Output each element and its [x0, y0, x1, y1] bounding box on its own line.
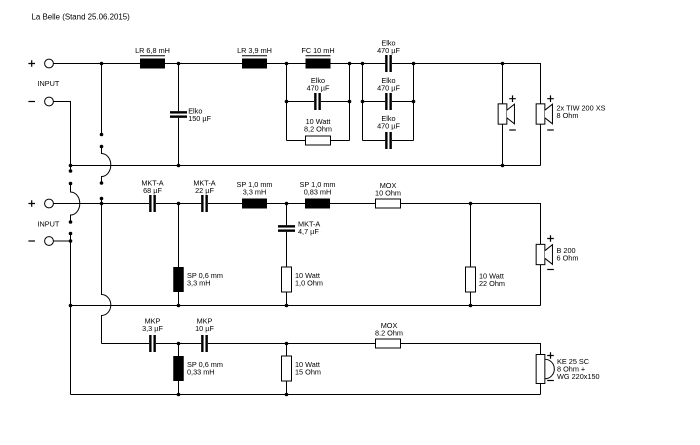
minus sign input - (mid/high) [28, 240, 35, 242]
inductor SP 1,0 mm 3,3 mH [242, 199, 267, 209]
capacitor Elko 470 uF (ladder bottom) [385, 132, 392, 149]
label FC 10 mH [301, 46, 334, 55]
label MKT-A 4,7 uF [298, 220, 320, 237]
plus sign tweeter + [547, 352, 554, 359]
wire bottom shunt coil branch [178, 344, 180, 395]
wire mid RC branch [286, 204, 288, 306]
wire mid positive rail [53, 204, 540, 306]
label 10 Watt 22 Ohm [479, 272, 505, 289]
label Elko 470 uF (notch) [307, 76, 330, 93]
svg-text:150 µF: 150 µF [188, 114, 211, 123]
wire bottom 15 Ohm branch [286, 344, 288, 395]
svg-text:68 µF: 68 µF [143, 186, 162, 195]
svg-text:FC 10 mH: FC 10 mH [301, 46, 334, 55]
wire bottom ground rail [71, 394, 541, 396]
junction negative feed break lower end [69, 232, 73, 236]
label KE 25 SC 8 Ohm + WG 220x150 [557, 357, 600, 381]
junction ladder middle right [412, 100, 416, 104]
minus sign woofer 1 - [509, 129, 516, 131]
minus sign input - (woofer) [28, 101, 35, 103]
junction top rail / ladder left [361, 62, 365, 66]
wire Elko 150 branch [178, 64, 180, 166]
svg-text:LR 3,9 mH: LR 3,9 mH [237, 46, 272, 55]
svg-text:10 Ohm: 10 Ohm [375, 189, 401, 198]
wire bottom positive rail [102, 344, 541, 395]
svg-text:WG 220x150: WG 220x150 [557, 372, 600, 381]
inductor SP 1,0 mm 0,83 mH [305, 199, 330, 209]
minus sign tweeter - [547, 380, 554, 382]
wire top positive rail [53, 64, 540, 166]
wire negative feed lower segment [70, 234, 72, 395]
svg-text:3,3 µF: 3,3 µF [142, 324, 163, 333]
svg-text:6 Ohm: 6 Ohm [557, 254, 579, 263]
label MOX 10 Ohm [375, 181, 401, 198]
junction positive feed hop start [100, 145, 104, 149]
junction ground rail / Elko 150 branch [177, 164, 181, 168]
inductor SP 0,6 mm 3,3 mH [173, 267, 184, 292]
capacitor MKP 3,3 uF [149, 335, 156, 352]
wire elko ladder bottom rail [363, 140, 414, 142]
junction positive feed break upper end [100, 133, 104, 137]
resistor 10 Watt 15 Ohm [282, 356, 292, 381]
junction top rail / notch block right [348, 62, 352, 66]
label MOX 8.2 Ohm [375, 321, 403, 338]
junction mid positive rail / shunt coil [177, 202, 181, 206]
label Elko 470 uF (ladder middle) [377, 76, 400, 93]
junction notch middle right [348, 100, 352, 104]
junction top rail / ladder right [412, 62, 416, 66]
plus sign woofer 1 + [509, 95, 516, 102]
junction mid ground rail / shunt coil [177, 304, 181, 308]
label MKT-A 22 uF [193, 179, 215, 196]
wire hop over mid positive rail [71, 184, 80, 223]
junction ground rail / woofer 1 [501, 164, 505, 168]
inductor LR 3,9 mH [242, 56, 267, 69]
wire notch block bottom rail [287, 140, 350, 142]
junction mid ground rail / 22 Ohm branch [469, 304, 473, 308]
junction bottom ground rail / shunt coil [177, 393, 181, 397]
capacitor Elko 150 uF [170, 111, 187, 118]
capacitor Elko 470 uF (ladder middle) [385, 93, 392, 110]
label 10 Watt 8,2 Ohm [304, 117, 332, 134]
junction negative feed / mid negative input [69, 239, 73, 243]
terminal input - (woofer) [45, 97, 54, 106]
svg-text:22 µF: 22 µF [195, 186, 214, 195]
label SP 0,6 mm 3,3 mH [187, 271, 223, 288]
label Elko 470 uF (ladder bottom) [377, 114, 400, 131]
svg-text:470 µF: 470 µF [377, 83, 400, 92]
label INPUT (mid/high) [38, 220, 60, 229]
terminal input + (mid/high) [45, 199, 54, 208]
inductor SP 0,6 mm 0,33 mH [173, 356, 184, 381]
junction negative feed break upper end [69, 169, 73, 173]
wire elko ladder left side [362, 64, 364, 141]
svg-text:8 Ohm: 8 Ohm [557, 111, 579, 120]
junction negative feed hop end [69, 220, 73, 224]
minus sign woofer 2 - [547, 129, 554, 131]
wire elko ladder right side [413, 64, 415, 141]
svg-text:La Belle (Stand 25.06.2015): La Belle (Stand 25.06.2015) [32, 13, 131, 22]
svg-text:3,3 mH: 3,3 mH [187, 279, 211, 288]
junction positive feed break lower end [100, 197, 104, 201]
wire hop over top ground rail [102, 147, 111, 184]
plus sign woofer 2 + [547, 95, 554, 102]
wire notch block middle rail [287, 101, 350, 103]
junction mid ground rail / RC branch [285, 304, 289, 308]
wire mid ground rail [71, 305, 541, 307]
svg-text:LR 6,8 mH: LR 6,8 mH [135, 46, 170, 55]
resistor 10 Watt 22 Ohm [466, 267, 476, 292]
plus sign input + (woofer) [28, 60, 35, 67]
label 10 Watt 1,0 Ohm [295, 271, 323, 288]
wire mid negative input [53, 240, 70, 242]
inductor LR 6,8 mH [140, 56, 165, 69]
wire top ground rail [71, 165, 541, 167]
svg-text:8.2 Ohm: 8.2 Ohm [375, 329, 403, 338]
resistor 10 Watt 8,2 Ohm [306, 136, 331, 145]
svg-text:8,2 Ohm: 8,2 Ohm [304, 125, 332, 134]
inductor FC 10 mH [306, 56, 331, 69]
plus sign midrange + [547, 235, 554, 242]
plus sign input + (mid/high) [28, 200, 35, 207]
svg-text:INPUT: INPUT [38, 220, 60, 229]
resistor MOX 10 Ohm [376, 199, 401, 208]
speaker tweeter KE 25 SC [536, 355, 554, 384]
svg-text:1,0 Ohm: 1,0 Ohm [295, 279, 323, 288]
terminal input + (woofer) [45, 59, 54, 68]
junction top rail / woofer 1 [501, 62, 505, 66]
junction mid positive rail / RC branch [285, 202, 289, 206]
speaker woofer 1 TIW 200 XS [498, 104, 514, 124]
capacitor MKT-A 22 uF [201, 195, 208, 212]
wire elko ladder middle rail [363, 101, 414, 103]
svg-text:4,7 µF: 4,7 µF [298, 227, 319, 236]
resistor MOX 8.2 Ohm [376, 339, 401, 348]
label INPUT (woofer) [38, 79, 60, 88]
terminal input - (mid/high) [45, 237, 54, 246]
wire notch block left side [286, 64, 288, 141]
label SP 0,6 mm 0,33 mH [187, 360, 223, 377]
capacitor MKT-A 4,7 uF [278, 225, 295, 232]
junction bottom positive rail / shunt coil [177, 342, 181, 346]
junction bottom positive rail / 15 Ohm branch [285, 342, 289, 346]
junction negative feed hop start [69, 182, 73, 186]
wire notch block right side [349, 64, 351, 141]
label SP 1,0 mm 0,83 mH [300, 180, 336, 197]
label SP 1,0 mm 3,3 mH [237, 180, 273, 197]
capacitor Elko 470 uF (notch) [314, 93, 321, 110]
wire positive feed lower segment with hop [102, 199, 111, 344]
label Elko 470 uF (ladder top) [377, 39, 400, 56]
label LR 6,8 mH [135, 46, 170, 55]
junction mid positive rail / positive feed [100, 202, 104, 206]
minus sign midrange - [547, 269, 554, 271]
label MKT-A 68 uF [141, 179, 163, 196]
svg-text:470 µF: 470 µF [377, 122, 400, 131]
junction mid positive rail / 22 Ohm branch [469, 202, 473, 206]
capacitor Elko 470 uF (ladder top) [385, 55, 392, 72]
junction top rail / notch block left [285, 62, 289, 66]
svg-text:0,83 mH: 0,83 mH [304, 188, 332, 197]
svg-text:3,3 mH: 3,3 mH [243, 188, 267, 197]
svg-text:0,33 mH: 0,33 mH [187, 368, 215, 377]
svg-text:INPUT: INPUT [38, 79, 60, 88]
speaker woofer 2 TIW 200 XS [536, 104, 552, 124]
label LR 3,9 mH [237, 46, 272, 55]
junction bottom ground rail / 15 Ohm branch [285, 393, 289, 397]
label Elko 150 uF [188, 107, 211, 124]
label 2x TIW 200 XS 8 Ohm [557, 104, 606, 121]
resistor 10 Watt 1,0 Ohm [282, 267, 292, 292]
junction ground rail / negative input [69, 164, 73, 168]
svg-text:470 µF: 470 µF [377, 46, 400, 55]
junction ladder middle left [361, 100, 365, 104]
capacitor MKP 10 uF [201, 335, 208, 352]
wire negative feed upper stub [70, 166, 72, 172]
wire top negative input to ground rail [53, 102, 70, 166]
speaker midrange B 200 [536, 244, 552, 264]
svg-text:10 µF: 10 µF [195, 324, 214, 333]
svg-text:22 Ohm: 22 Ohm [479, 279, 505, 288]
junction top rail / positive feed [100, 62, 104, 66]
junction top rail / Elko 150 branch [177, 62, 181, 66]
junction mid ground rail / negative feed [69, 304, 73, 308]
label B 200 6 Ohm [557, 246, 579, 263]
junction positive feed hop end [100, 181, 104, 185]
wire woofer 1 branch [502, 64, 504, 166]
wire positive feed upper segment [101, 64, 103, 135]
label MKP 3,3 uF [142, 317, 163, 334]
junction notch middle left [285, 100, 289, 104]
svg-text:15 Ohm: 15 Ohm [295, 368, 321, 377]
wire mid 22 Ohm branch [470, 204, 472, 306]
label 10 Watt 15 Ohm [295, 360, 321, 377]
label MKP 10 uF [195, 317, 214, 334]
svg-text:470 µF: 470 µF [307, 83, 330, 92]
capacitor MKT-A 68 uF [149, 195, 156, 212]
wire mid shunt coil branch [178, 204, 180, 306]
